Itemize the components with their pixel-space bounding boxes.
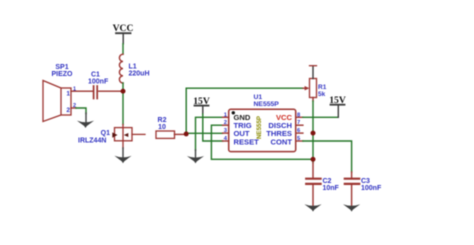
inductor L1 coil bbox=[119, 54, 123, 83]
right pin stubs bbox=[296, 117, 303, 141]
ground symbol under 555 bbox=[187, 156, 204, 163]
pin1 marker dot bbox=[232, 111, 235, 114]
ground pin under speaker bbox=[85, 113, 87, 123]
svg-text:7: 7 bbox=[297, 120, 300, 126]
15V supply left pin bbox=[202, 106, 204, 114]
15V supply right bar bbox=[331, 104, 345, 106]
R1 top supply tick bbox=[310, 65, 317, 67]
svg-text:220uH: 220uH bbox=[129, 71, 150, 78]
pin numbers left 1 2 3 4 bbox=[224, 112, 228, 142]
wire THRES junction down to lower rail bbox=[312, 133, 314, 159]
trimmer R1 box bbox=[310, 79, 317, 98]
R1 top supply pin bbox=[312, 66, 314, 79]
ground symbol under C2 bbox=[304, 204, 321, 211]
top wire to R1 wiper bbox=[186, 87, 303, 89]
node overlay dot L1/C1 bbox=[121, 89, 126, 94]
R1 bottom pin bbox=[312, 98, 314, 102]
svg-text:2: 2 bbox=[224, 120, 227, 126]
junction at C2/lower rail bbox=[311, 157, 316, 162]
wire C1 to node (red) bbox=[99, 90, 122, 92]
15V supply right pin bbox=[337, 105, 339, 118]
svg-text:R1: R1 bbox=[318, 84, 327, 91]
wire CONT to C3 bbox=[303, 141, 352, 172]
capacitor C3 bottom pin bbox=[351, 185, 353, 206]
svg-text:Q1: Q1 bbox=[101, 130, 110, 137]
wire pin2 to ground bbox=[76, 108, 86, 114]
wire VCC pin8 rail to 15V bbox=[303, 116, 338, 118]
capacitor C2 plates bbox=[306, 179, 320, 184]
svg-text:NE555P: NE555P bbox=[254, 101, 280, 108]
svg-text:IRLZ44N: IRLZ44N bbox=[78, 138, 106, 145]
node overlay dot THRES bbox=[311, 131, 316, 136]
svg-text:C1: C1 bbox=[91, 72, 100, 79]
IC U1 NE555P box bbox=[229, 109, 296, 151]
ground symbol under C3 bbox=[343, 204, 360, 211]
wire junction up to top rail bbox=[185, 88, 187, 134]
node overlay dot OUT/R2 bbox=[184, 132, 189, 137]
resistor R2 bbox=[156, 131, 175, 138]
ground symbol under speaker bbox=[77, 121, 94, 128]
wire 15V down to RESET bbox=[203, 114, 223, 141]
wire R2 right to junction bbox=[175, 133, 185, 135]
svg-text:C3: C3 bbox=[361, 178, 370, 185]
svg-text:C2: C2 bbox=[323, 178, 332, 185]
wire speaker pin2 (red then green) bbox=[71, 107, 76, 109]
ground pin under Q1 bbox=[122, 148, 124, 158]
15V supply left bar bbox=[195, 105, 209, 107]
svg-text:10: 10 bbox=[158, 124, 166, 131]
node overlay dot C2 rail bbox=[311, 157, 316, 162]
svg-text:1: 1 bbox=[66, 91, 70, 98]
VCC supply bar bbox=[116, 32, 131, 34]
wire L1 to node to Q1 drain bbox=[122, 83, 124, 125]
svg-text:NE555P: NE555P bbox=[256, 116, 263, 139]
svg-text:100nF: 100nF bbox=[361, 185, 382, 192]
ground pin under 555 bbox=[195, 150, 197, 158]
capacitor C1 plates bbox=[94, 86, 98, 99]
ground symbol under Q1 bbox=[114, 156, 131, 163]
wire speaker pin1 to C1 (red) bbox=[71, 90, 93, 92]
svg-text:PIEZO: PIEZO bbox=[51, 71, 73, 78]
transistor Q1 IRLZ44N bbox=[115, 125, 146, 149]
junction node at L1/C1/Q1 bbox=[121, 89, 126, 94]
wire R1 bottom down through rail to THRES bbox=[312, 101, 314, 133]
junction at THRES bbox=[311, 131, 316, 136]
svg-text:5k: 5k bbox=[318, 91, 326, 98]
wire GND pin1 to ground bbox=[196, 117, 223, 150]
wire OUT pin to junction bbox=[186, 132, 222, 134]
R1 wiper arrow bbox=[303, 87, 305, 89]
svg-text:CONT: CONT bbox=[270, 137, 292, 146]
wire VCC to L1 bbox=[122, 44, 124, 55]
capacitor C3 plates bbox=[345, 179, 359, 184]
capacitor C3 top pin bbox=[351, 172, 353, 178]
wire junction to C2 bbox=[312, 159, 314, 162]
junction at R2/OUT bbox=[184, 132, 189, 137]
svg-text:2: 2 bbox=[66, 107, 70, 114]
left pin stubs bbox=[223, 117, 229, 141]
speaker SP1 PIEZO body bbox=[43, 81, 71, 122]
VCC supply pin bbox=[122, 33, 124, 44]
Q1 body-diode arrows bbox=[112, 132, 117, 137]
svg-text:R2: R2 bbox=[158, 117, 167, 124]
svg-text:L1: L1 bbox=[129, 64, 137, 71]
capacitor C2 top pin bbox=[312, 163, 314, 178]
wire TRIG to lower rail bbox=[211, 125, 311, 159]
pin numbers right 8 7 6 5 bbox=[297, 112, 301, 142]
svg-text:10nF: 10nF bbox=[323, 185, 340, 192]
svg-text:SP1: SP1 bbox=[55, 64, 68, 71]
capacitor C2 bottom pin bbox=[312, 185, 314, 206]
svg-text:100nF: 100nF bbox=[88, 79, 109, 86]
